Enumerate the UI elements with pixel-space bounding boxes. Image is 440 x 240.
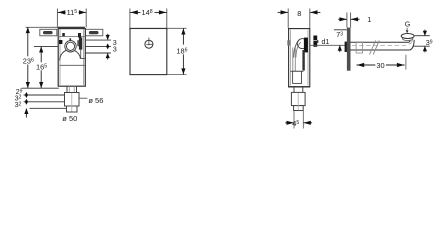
dimension 1 arrows [338,18,347,20]
svg-text:30: 30 [376,61,384,70]
d1 stud [313,36,317,47]
flush pipe dashed centre [352,44,406,46]
housing inner wall right [307,30,309,86]
dimension 8 ext right [309,9,311,29]
front plate top (thick) [129,28,167,30]
dimension 18.6 ext bottom [167,74,187,76]
wall nub [287,40,290,45]
cistern body outline [58,29,85,87]
pipe break slash a [370,40,376,54]
flush pipe bottom edge [351,49,410,51]
dimension 8 ext left [287,9,289,29]
svg-text:8: 8 [297,9,301,18]
left wall nub [59,40,62,44]
dimension 30 right ext [405,55,407,70]
outlet bottom (view3) [294,106,304,111]
dimension 11.5 ext line right [85,9,87,28]
dimension 4.5 ext right [302,111,304,129]
flange lower ellipse [403,37,413,41]
svg-text:39: 39 [426,38,433,47]
outlet neck inner lines [68,86,70,92]
dimension 11.5 ext line left [56,9,58,28]
dimension 4.5 arrows [285,122,294,124]
chain line 3 [24,101,65,103]
float valve circle outer [65,41,76,52]
svg-text:d1: d1 [322,39,330,46]
16.5 left stub line [34,45,58,47]
housing top thick [288,28,310,30]
wall-side black stub [345,42,347,52]
pipe break slash b [373,40,379,54]
d1 stud notch [313,40,317,42]
body inner wall left [59,30,61,86]
inner pipe line a [292,48,294,72]
interior bolt right [78,33,81,38]
7.3 up arrow [339,45,341,52]
bend inner [409,40,411,42]
bend inner curve [296,42,301,57]
leader o56 [80,97,88,99]
right bracket [85,29,103,36]
interior shelf line [59,36,85,38]
right side line level 1 [86,39,111,41]
svg-text:G: G [405,20,411,29]
svg-text:3: 3 [113,44,117,53]
dimension 11.5 line [57,11,86,13]
dimension 18.6 line [182,28,184,74]
bend outer curve [294,39,300,57]
bend outer [410,40,415,50]
G arrow [406,28,408,32]
dim 3 diamond [106,43,109,49]
dimension 3.9 top line [415,35,430,37]
flange upper ellipse [401,34,414,39]
valve stem line [80,50,82,59]
dimension 1 ext right [350,13,352,28]
dimension 14.8 label backing [141,9,155,16]
dimension 1 ext left [346,13,348,28]
right bracket slot [89,31,99,34]
water line [60,64,85,66]
black flush pipe top [304,38,308,53]
push button vertical tick [148,38,150,46]
dimension 8 line left tail [278,11,288,13]
svg-text:ø 50: ø 50 [62,114,77,123]
chain up arrow [25,109,27,118]
chain diamond on line2 [25,92,28,98]
dimension 23.6 label backing [22,56,33,64]
dimension 3.9 up arrow [424,46,426,52]
flush valve detail [77,40,79,46]
svg-text:32: 32 [15,100,22,109]
housing inner wall left [289,30,291,86]
dimension 11.5 arrow left [58,10,65,14]
dimension 11.5 arrow right [79,10,86,14]
pipe centre level line [310,44,347,46]
dimension 30 label backing [375,62,386,69]
dimension 3.9 down arrow [424,30,426,36]
wall plate [347,28,351,71]
dimension 18.6 ext top [167,27,187,29]
outlet bottom piece [67,106,78,112]
union nut [356,42,363,53]
flush pipe top edge [351,41,409,43]
inner pipe line b [294,48,296,72]
dimension 4.5 ext left [293,111,295,129]
dome right ledge [80,57,85,59]
dimension 16.5 line [40,47,42,88]
svg-text:ø 56: ø 56 [88,96,103,105]
push button horizontal tick [146,43,153,45]
outlet center line [71,93,73,112]
outlet neck [66,86,68,92]
outlet collar (view3) [291,92,305,105]
dimension 30 line [357,64,405,66]
23.6 top reference line [26,26,58,28]
chain line 2 [24,94,67,96]
black flush pipe lower [302,50,304,71]
flush valve dark mass [79,37,82,49]
bend inner thin [409,40,413,44]
top rail (thick) [58,27,85,29]
body inner wall right [83,30,85,86]
dimension 23.6 line [27,27,29,88]
dimension 16.5 label backing [36,62,46,70]
left bracket slot [43,31,53,34]
float valve top nub [69,38,71,41]
interior shelf [291,70,304,72]
dome arc [60,50,81,61]
right side line level 2 [86,45,111,47]
svg-text:45: 45 [292,119,299,128]
push button circle [145,40,153,48]
dimension 14.8 ext right [166,9,168,29]
chain line 4 [30,107,67,109]
7.3 top ref line [334,29,347,31]
dim 3 upper arrow [107,34,109,40]
dimension 11.5 label backing [66,9,79,16]
svg-text:73: 73 [336,30,343,39]
dimension 3.9 bottom line [413,45,430,47]
float valve circle inner [66,42,74,50]
chain diamond on line3 [25,99,28,105]
connector circle [297,39,307,49]
housing bottom thick [288,86,310,88]
outlet center line (view3) [297,93,299,110]
outlet collar [65,93,80,107]
d1 stud side tab [317,40,318,43]
chain line 1 [22,87,59,89]
dimension 18.6 label backing [179,45,190,55]
dimension 14.8 line [130,11,167,13]
dimension 8 line right tail [310,11,320,13]
dimension 14.8 ext left [129,9,131,29]
svg-text:1: 1 [367,15,371,24]
outlet inner box [293,71,302,83]
housing outline [289,29,310,87]
left bracket [40,29,57,36]
right side line level 3 [85,52,111,54]
outlet neck (view3) [293,87,295,93]
dim 3 lower arrow [107,54,109,60]
front plate body [130,29,167,75]
interior bolt left [62,33,65,36]
